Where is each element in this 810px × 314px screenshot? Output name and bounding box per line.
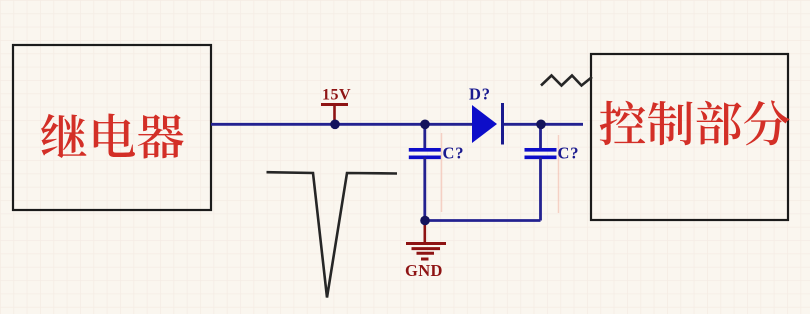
svg-text:C?: C? bbox=[443, 144, 465, 163]
svg-text:C?: C? bbox=[558, 144, 580, 163]
svg-text:GND: GND bbox=[405, 261, 443, 280]
svg-text:15V: 15V bbox=[322, 87, 351, 104]
svg-text:D?: D? bbox=[469, 85, 491, 104]
